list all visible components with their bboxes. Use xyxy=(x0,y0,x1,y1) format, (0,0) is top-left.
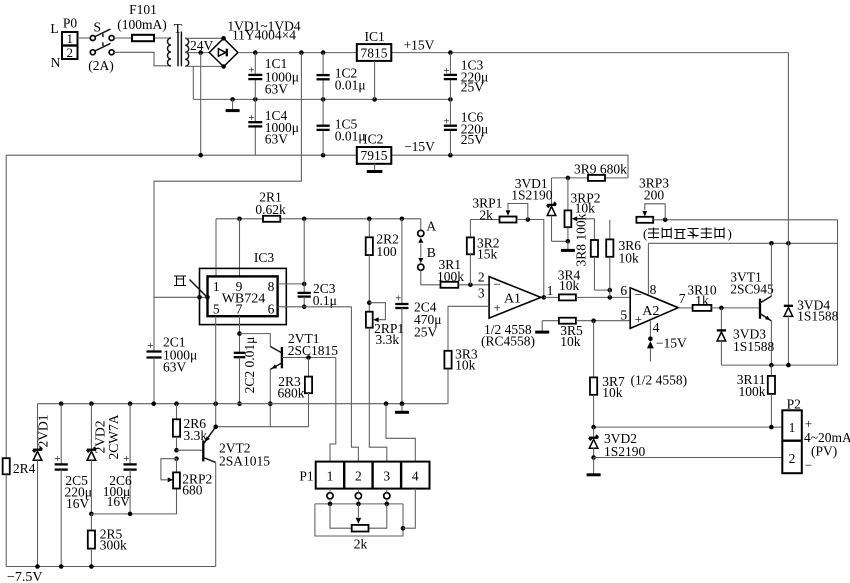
wire 2VT1 emitter xyxy=(269,369,271,426)
label S xyxy=(94,20,102,35)
label P0 xyxy=(63,16,78,31)
svg-text:63V: 63V xyxy=(265,82,289,97)
pin 9 xyxy=(236,279,243,294)
label 2R5 xyxy=(100,526,127,552)
svg-text:F101: F101 xyxy=(129,2,157,17)
svg-text:P0: P0 xyxy=(63,16,78,31)
svg-text:−15V: −15V xyxy=(404,139,435,154)
svg-text:10k: 10k xyxy=(559,278,580,293)
node xyxy=(59,564,64,569)
label (RC4558) xyxy=(481,333,535,348)
wiper 3RP3 xyxy=(642,204,665,220)
transistor 2VT2 2SA1015 xyxy=(177,427,216,463)
op-amp A2 xyxy=(630,287,678,328)
resistor 3R11 xyxy=(768,365,775,427)
bridge rectifier 1VD1~1VD4 xyxy=(209,38,238,66)
wire 404 rail xyxy=(38,403,448,405)
diode 3VD4 xyxy=(784,306,793,365)
node xyxy=(400,401,405,406)
svg-text:7815: 7815 xyxy=(361,45,388,60)
capacitor 2C3 xyxy=(298,284,311,307)
svg-text:+: + xyxy=(123,453,129,465)
label 3VD3 xyxy=(733,327,775,355)
wire 513 rail xyxy=(91,489,176,514)
wire right edge drop xyxy=(837,220,839,365)
label + xyxy=(805,416,812,431)
wire bottom rail -7.5V xyxy=(6,566,216,568)
node xyxy=(321,153,326,158)
label 2VT2 xyxy=(219,441,270,469)
wire xyxy=(185,65,222,67)
node xyxy=(566,176,571,181)
svg-text:+: + xyxy=(395,293,401,305)
node xyxy=(769,363,774,368)
resistor 3R7 xyxy=(590,321,597,427)
wire pin6 to P1-2 xyxy=(351,307,358,462)
connector P2 xyxy=(782,410,802,473)
wiper 2RP2 xyxy=(161,459,177,483)
label 1C6 xyxy=(461,110,489,148)
node xyxy=(648,336,653,341)
pin 5 xyxy=(620,308,627,323)
label 3R8 100k xyxy=(574,213,589,266)
switch S pole 1 xyxy=(90,29,114,40)
wiper 2k xyxy=(356,504,362,524)
svg-text:1: 1 xyxy=(67,31,74,46)
wire 2VT2 collector xyxy=(215,462,217,566)
case pointer line xyxy=(190,280,207,297)
wire +15V rail xyxy=(391,52,788,54)
wire xyxy=(542,320,559,322)
node xyxy=(302,305,307,310)
label - xyxy=(805,458,812,473)
wire secondary tap xyxy=(185,52,209,54)
svg-text:+: + xyxy=(248,112,254,124)
wire A1 pin3 xyxy=(448,306,489,351)
svg-text:−: − xyxy=(635,287,642,302)
svg-text:S: S xyxy=(94,20,102,35)
wire P2 pin2 row xyxy=(594,457,783,459)
wire IC3 pin7 xyxy=(239,316,241,352)
node xyxy=(128,401,133,406)
wire xyxy=(544,296,559,298)
svg-text:2SC945: 2SC945 xyxy=(730,282,774,297)
svg-text:63V: 63V xyxy=(265,132,289,147)
svg-text:100k: 100k xyxy=(739,384,766,399)
node xyxy=(367,300,372,305)
svg-text:7: 7 xyxy=(236,301,243,316)
node xyxy=(608,288,613,293)
node xyxy=(448,153,453,158)
diode 3VD3 xyxy=(717,308,726,365)
label 1C2 xyxy=(335,66,366,93)
node xyxy=(591,455,596,460)
svg-text:L: L xyxy=(50,21,58,36)
wire 3R9 row xyxy=(552,177,629,179)
resistor 2R4 xyxy=(3,458,10,566)
svg-text:+: + xyxy=(443,65,449,77)
node xyxy=(719,306,724,311)
label WB724 xyxy=(222,291,266,306)
wire xyxy=(576,320,630,322)
svg-text:3.3k: 3.3k xyxy=(376,332,400,347)
resistor 3R8 xyxy=(591,240,610,290)
label B xyxy=(427,245,436,260)
label 3RP1 xyxy=(472,196,502,223)
svg-text:0.01μ: 0.01μ xyxy=(335,78,366,93)
op-amp A1 xyxy=(489,277,541,319)
label +15V xyxy=(404,37,435,52)
svg-text:1: 1 xyxy=(213,279,220,294)
wire 3VD4 from +15V xyxy=(787,53,789,306)
wire 3VT1 collector xyxy=(770,243,772,296)
svg-text:2VD1: 2VD1 xyxy=(36,415,51,448)
svg-text:B: B xyxy=(427,245,436,260)
svg-text:+: + xyxy=(248,65,254,77)
svg-text:(PV): (PV) xyxy=(811,444,837,459)
svg-text:10k: 10k xyxy=(560,334,581,349)
node xyxy=(448,97,453,102)
capacitor 2C5 xyxy=(54,404,67,567)
svg-text:−: − xyxy=(805,458,812,473)
diode 2VD2 xyxy=(87,404,96,514)
svg-text:5: 5 xyxy=(213,301,220,316)
ic IC3 outer box xyxy=(200,268,287,324)
svg-text:1S1588: 1S1588 xyxy=(733,339,775,354)
wire IC3 case xyxy=(154,296,208,298)
svg-text:3R8 100k: 3R8 100k xyxy=(574,213,589,266)
resistor 3R2 xyxy=(467,220,474,285)
label 3R7 xyxy=(602,374,625,400)
link arrow A-B xyxy=(418,238,423,264)
ground xyxy=(587,458,601,475)
wire xyxy=(330,489,387,493)
resistor 2R2 xyxy=(366,219,373,255)
node xyxy=(385,502,390,507)
resistor 3R1 xyxy=(441,282,459,288)
transformer T primary winding xyxy=(168,38,172,66)
terminal circles xyxy=(327,493,390,499)
svg-text:1k: 1k xyxy=(695,293,709,308)
label constant-current adjust xyxy=(643,226,732,241)
label 2RP2 xyxy=(182,472,212,498)
node xyxy=(59,401,64,406)
potentiometer 2RP2 xyxy=(173,459,180,489)
wire left edge xyxy=(5,155,7,458)
svg-text:0.01μ: 0.01μ xyxy=(335,129,366,144)
node xyxy=(237,217,242,222)
svg-text:A2: A2 xyxy=(642,304,659,319)
svg-text:300k: 300k xyxy=(100,538,127,553)
regulator IC1 7815 xyxy=(357,44,392,61)
node A1 out xyxy=(542,295,547,300)
svg-text:2R4: 2R4 xyxy=(13,461,36,476)
capacitor 1C2 xyxy=(317,53,330,100)
wire xyxy=(369,504,387,528)
node xyxy=(608,295,613,300)
label 2k xyxy=(354,537,368,552)
svg-text:T: T xyxy=(174,21,183,36)
svg-text:2SC1815: 2SC1815 xyxy=(288,343,339,358)
node B xyxy=(418,264,424,270)
wire 3VT1 base xyxy=(711,307,760,309)
svg-text:0.62k: 0.62k xyxy=(255,202,286,217)
node xyxy=(205,295,210,300)
wire 2RP1 to P1-3 xyxy=(369,328,387,462)
label (1/2 4558) xyxy=(631,373,688,388)
svg-text:P1: P1 xyxy=(299,469,313,484)
wire pin8 row xyxy=(648,242,837,244)
svg-text:+: + xyxy=(147,340,153,352)
ground xyxy=(561,241,575,250)
svg-text:8: 8 xyxy=(268,279,275,294)
svg-text:16V: 16V xyxy=(107,494,131,509)
capacitor 1C4 xyxy=(248,99,262,155)
wire xyxy=(458,284,489,286)
wire xyxy=(678,307,692,309)
svg-text:25V: 25V xyxy=(461,80,485,95)
svg-text:3R9 680k: 3R9 680k xyxy=(574,162,627,177)
svg-text:10k: 10k xyxy=(575,201,596,216)
node xyxy=(197,295,202,300)
ground xyxy=(535,321,549,332)
svg-text:1: 1 xyxy=(327,469,334,484)
label 1C3 xyxy=(461,58,489,95)
label L xyxy=(50,21,58,36)
wire pot loop xyxy=(315,504,403,536)
node xyxy=(786,241,791,246)
svg-text:(100mA): (100mA) xyxy=(117,17,167,32)
potentiometer 3RP3 xyxy=(636,217,837,223)
label 24V xyxy=(190,38,214,53)
label 2C3 xyxy=(313,281,337,308)
svg-text:0.1μ: 0.1μ xyxy=(313,293,337,308)
resistor 2R5 xyxy=(88,514,95,567)
wire to mid rail xyxy=(192,66,194,99)
label 3VD1 xyxy=(511,176,553,202)
svg-text:680: 680 xyxy=(182,483,203,498)
svg-text:IC2: IC2 xyxy=(363,132,383,147)
wire mid rail xyxy=(193,98,450,100)
node xyxy=(253,97,258,102)
node xyxy=(268,401,273,406)
label (PV) xyxy=(811,444,837,459)
pin 8 xyxy=(268,279,275,294)
label -15V xyxy=(404,139,435,154)
pin 3 xyxy=(478,286,485,301)
label 3R2 xyxy=(477,236,500,262)
capacitor 2C4 xyxy=(395,219,408,404)
svg-text:1: 1 xyxy=(789,420,796,435)
svg-text:4: 4 xyxy=(412,469,419,484)
wire xyxy=(368,255,370,312)
svg-text:IC3: IC3 xyxy=(254,250,275,265)
label 3R5 xyxy=(560,323,583,349)
connector P0 xyxy=(62,31,78,60)
resistor 3R9 xyxy=(588,175,605,181)
svg-text:1: 1 xyxy=(547,283,554,298)
svg-text:2C2 0.01μ: 2C2 0.01μ xyxy=(242,337,257,394)
capacitor 1C3 xyxy=(443,53,457,100)
svg-text:7: 7 xyxy=(679,291,686,306)
node bridge AC bottom xyxy=(221,64,226,69)
wire feeder from +V xyxy=(154,53,301,352)
label -7.5V xyxy=(7,570,43,583)
label 4~20mA xyxy=(804,430,850,445)
node xyxy=(400,217,405,222)
ground xyxy=(395,404,409,413)
label -15V xyxy=(656,336,687,351)
node xyxy=(237,331,242,336)
label 2VD1 xyxy=(36,415,51,448)
svg-text:16V: 16V xyxy=(66,496,90,511)
node xyxy=(769,425,774,430)
label 11Y4004×4 xyxy=(232,28,296,43)
label P2 xyxy=(787,396,801,411)
label case (ke) xyxy=(174,276,186,286)
svg-text:2k: 2k xyxy=(354,537,368,552)
potentiometer 2k xyxy=(352,525,369,532)
svg-text:15k: 15k xyxy=(477,246,498,261)
svg-text:A: A xyxy=(426,219,436,234)
label 3R1 xyxy=(437,257,464,284)
svg-text:6: 6 xyxy=(268,301,275,316)
svg-text:IC1: IC1 xyxy=(364,29,384,44)
transistor 3VT1 2SC945 xyxy=(760,296,771,321)
svg-text:63V: 63V xyxy=(163,360,187,375)
node xyxy=(174,448,179,453)
svg-text:10k: 10k xyxy=(619,250,640,265)
wire xyxy=(330,504,352,528)
resistor 3R3 xyxy=(444,351,451,404)
resistor 2R1 xyxy=(263,216,280,222)
svg-text:−: − xyxy=(494,277,501,292)
node xyxy=(89,564,94,569)
label IC3 xyxy=(254,250,275,265)
svg-text:N: N xyxy=(51,55,61,70)
label 3VD4 xyxy=(797,297,839,323)
label 3VD2 xyxy=(604,431,646,459)
wire xyxy=(114,37,171,39)
svg-text:200: 200 xyxy=(644,187,665,202)
svg-text:25V: 25V xyxy=(461,132,485,147)
pin 1 xyxy=(213,279,220,294)
node xyxy=(302,282,307,287)
node xyxy=(306,355,311,360)
svg-text:5: 5 xyxy=(620,308,627,323)
potentiometer 3RP1 xyxy=(470,217,543,298)
label 1C4 xyxy=(265,108,299,147)
svg-text:2SA1015: 2SA1015 xyxy=(219,454,270,469)
node xyxy=(786,363,791,368)
node xyxy=(253,50,258,55)
label 3R11 xyxy=(737,372,766,399)
node xyxy=(299,50,304,55)
svg-text:6: 6 xyxy=(620,283,627,298)
wire -15V rail xyxy=(391,155,628,178)
node xyxy=(89,512,94,517)
svg-text:2: 2 xyxy=(355,469,362,484)
node xyxy=(468,283,473,288)
wire 3VT1 emitter xyxy=(770,321,772,365)
svg-text:3: 3 xyxy=(478,286,485,301)
wire P1 pin4 drop xyxy=(403,489,415,529)
svg-text:8: 8 xyxy=(650,282,657,297)
wire P2 pin1 row xyxy=(594,426,783,428)
label 2R2 xyxy=(376,232,399,260)
label (100mA) xyxy=(117,17,167,32)
wire xyxy=(78,37,91,39)
pin 7 xyxy=(679,291,686,306)
wire 2C3 riser xyxy=(303,219,305,284)
capacitor 1C1 xyxy=(248,53,262,100)
label 3RP2 xyxy=(571,191,601,216)
potentiometer 3RP2 xyxy=(565,178,572,241)
wire xyxy=(240,334,271,347)
transformer T core xyxy=(178,32,181,67)
resistor 3R5 xyxy=(559,318,576,324)
wire xyxy=(185,37,222,39)
node xyxy=(230,97,235,102)
label P1 xyxy=(299,469,313,484)
label 2C6 xyxy=(103,473,132,509)
svg-text:+: + xyxy=(635,312,642,327)
svg-text:10k: 10k xyxy=(602,385,623,400)
svg-text:100k: 100k xyxy=(437,269,464,284)
wire 2R1 row xyxy=(216,218,421,220)
ground xyxy=(226,99,240,110)
wire emitter row xyxy=(721,364,837,366)
node xyxy=(321,50,326,55)
label (2A) xyxy=(88,58,114,73)
svg-text:3: 3 xyxy=(383,469,390,484)
resistor 3R10 xyxy=(693,305,712,311)
label 1C1 xyxy=(265,56,299,97)
node xyxy=(321,97,326,102)
potentiometer 2RP1 xyxy=(366,312,373,328)
node xyxy=(328,502,333,507)
switch S link dashes xyxy=(102,34,104,46)
label 2R3 xyxy=(278,374,305,400)
wire 2VT2 emitter up xyxy=(215,404,217,427)
node bridge AC top xyxy=(221,36,226,41)
svg-text:+: + xyxy=(54,453,60,465)
wire IC3 pin8 xyxy=(278,283,305,285)
node xyxy=(89,401,94,406)
capacitor 2C6 xyxy=(123,404,136,514)
wire xyxy=(330,499,387,504)
label 2VD2 xyxy=(93,414,122,459)
svg-text:1S2190: 1S2190 xyxy=(511,187,553,202)
node xyxy=(128,512,133,517)
svg-text:1S2190: 1S2190 xyxy=(604,444,646,459)
node CT junction xyxy=(198,50,203,55)
label N xyxy=(51,55,61,70)
wire xyxy=(114,52,171,66)
wire A2 pin4 xyxy=(649,320,651,339)
svg-text:+15V: +15V xyxy=(404,37,435,52)
wire IC1 gnd xyxy=(374,61,376,100)
svg-text:+: + xyxy=(443,116,449,128)
label 1C5 xyxy=(335,117,366,144)
svg-text:4: 4 xyxy=(653,320,660,335)
svg-text:−15V: −15V xyxy=(656,336,687,351)
label 2C5 xyxy=(65,473,93,511)
svg-text:2CW7A: 2CW7A xyxy=(106,414,121,459)
pin 2 xyxy=(478,270,485,285)
node xyxy=(591,318,596,323)
node xyxy=(401,526,406,531)
